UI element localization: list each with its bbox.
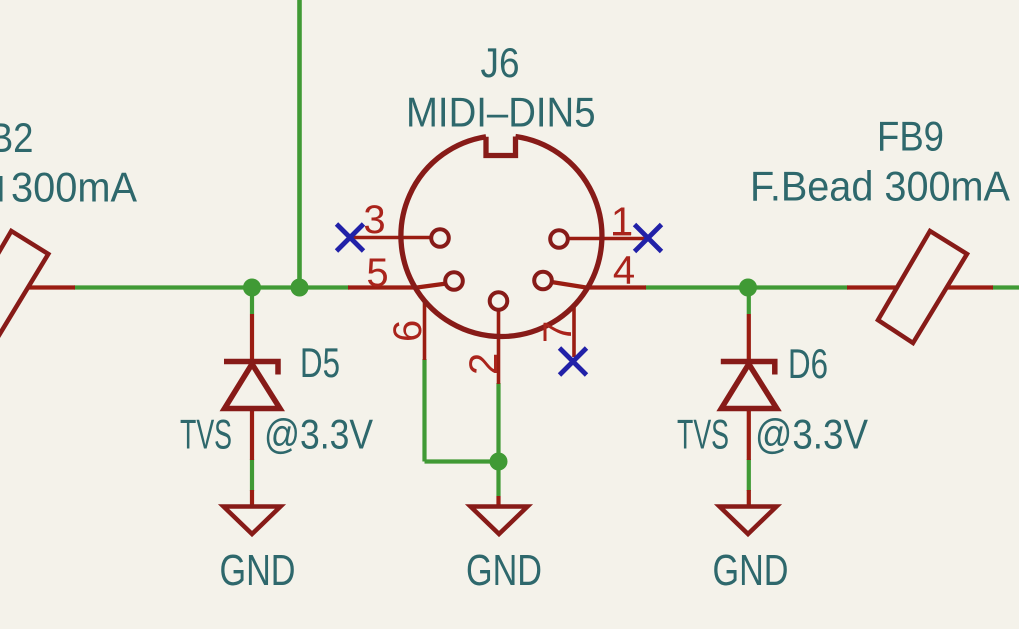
lead pin 1 xyxy=(568,237,646,241)
ground symbol middle xyxy=(471,507,528,535)
svg-text:6: 6 xyxy=(386,320,430,342)
ferrite bead FB2 xyxy=(0,231,48,343)
ground symbol right xyxy=(720,507,777,535)
junction left D5 xyxy=(243,279,261,297)
lead pin 5 xyxy=(348,284,447,288)
svg-text:TVS: TVS xyxy=(677,411,729,458)
wire D5 bottom xyxy=(250,459,254,491)
pin 4 circle xyxy=(534,272,552,290)
lead FB9 left xyxy=(847,285,897,289)
lead D5 gnd xyxy=(250,490,254,507)
svg-text:@3.3V: @3.3V xyxy=(264,411,373,458)
junction top net xyxy=(291,279,309,297)
svg-text:F.Bead 300mA: F.Bead 300mA xyxy=(750,163,1010,210)
svg-text:D5: D5 xyxy=(300,339,340,386)
lead pin 4 xyxy=(552,282,647,288)
lead pin 2 xyxy=(497,310,501,384)
lead D6 anode xyxy=(747,314,751,359)
svg-text:2: 2 xyxy=(462,353,506,375)
lead FB9 right xyxy=(947,285,993,289)
junction right D6 xyxy=(739,279,757,297)
connector J6 body circle xyxy=(401,137,602,337)
no-connect X pin 3 xyxy=(337,224,364,251)
svg-text:4: 4 xyxy=(613,249,635,293)
svg-text:GND: GND xyxy=(466,546,542,595)
svg-text:3: 3 xyxy=(363,198,385,242)
svg-text:GND: GND xyxy=(220,546,296,595)
pin 5 circle xyxy=(445,272,463,290)
wire horizontal left xyxy=(74,285,349,289)
pin 2 circle xyxy=(490,292,508,310)
lead D6 cathode xyxy=(747,411,751,460)
no-connect X pin 1 xyxy=(635,225,662,252)
lead gnd middle xyxy=(496,496,500,507)
wire D6 top xyxy=(747,288,751,315)
svg-text:1: 1 xyxy=(611,200,633,244)
wire vertical top net xyxy=(297,0,302,288)
lead pin 3 xyxy=(350,236,431,240)
no-connect X pin 7 xyxy=(560,348,587,375)
TVS diode D6 cathode bar xyxy=(721,362,775,375)
TVS diode D5 triangle xyxy=(225,364,281,409)
wire D6 bottom xyxy=(747,459,751,491)
svg-text:MIDI–DIN5: MIDI–DIN5 xyxy=(406,89,596,136)
wire D5 top xyxy=(250,288,254,315)
svg-text:D6: D6 xyxy=(788,340,828,387)
wire pin6 down xyxy=(422,359,426,462)
svg-text:7: 7 xyxy=(536,321,580,343)
wire pin2 down xyxy=(496,383,500,496)
value F.Bead 300mA left cut letter d tail xyxy=(0,176,3,202)
TVS diode D6 triangle xyxy=(721,364,777,409)
svg-text:GND: GND xyxy=(713,546,789,595)
lead pin 7 xyxy=(572,305,576,357)
svg-text:300mA: 300mA xyxy=(11,164,137,211)
wire pin6 to pin2 xyxy=(425,459,499,463)
wire right edge xyxy=(992,285,1019,289)
svg-text:5: 5 xyxy=(366,251,388,295)
pin 1 circle xyxy=(550,230,568,248)
svg-text:FB9: FB9 xyxy=(877,113,944,160)
lead pin 6 xyxy=(423,300,427,360)
pin 3 circle xyxy=(431,229,449,247)
svg-text:FB2: FB2 xyxy=(0,114,34,161)
lead D5 anode xyxy=(250,314,254,359)
lead D5 cathode xyxy=(250,411,254,460)
TVS diode D5 cathode bar xyxy=(224,362,278,375)
lead D6 gnd xyxy=(747,490,751,507)
junction pin6 pin2 xyxy=(490,453,508,471)
ground symbol left xyxy=(224,507,281,535)
wire horizontal right xyxy=(645,285,848,289)
svg-text:@3.3V: @3.3V xyxy=(755,411,868,458)
ferrite bead FB9 xyxy=(878,231,967,343)
lead FB2 right xyxy=(28,285,75,289)
svg-text:J6: J6 xyxy=(481,39,520,86)
svg-text:TVS: TVS xyxy=(180,411,232,458)
connector J6 notch xyxy=(486,137,516,156)
